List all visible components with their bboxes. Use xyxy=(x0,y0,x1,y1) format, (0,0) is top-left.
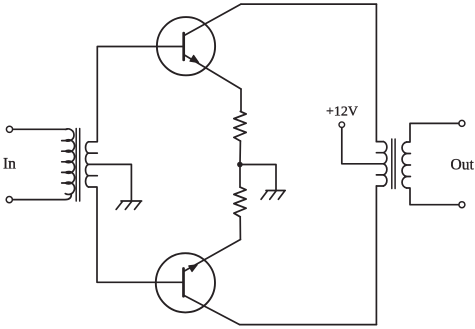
transistor Q1 circle xyxy=(157,17,215,75)
wire right vertical upper xyxy=(375,4,377,142)
transistor Q2 circle xyxy=(156,253,215,312)
transistor Q2 emitter line xyxy=(184,240,240,272)
transistor Q1 collector line xyxy=(185,4,241,35)
transformer T2 secondary winding xyxy=(402,142,407,188)
wire +12V to T2 center tap xyxy=(342,128,384,164)
svg-text:Out: Out xyxy=(451,156,475,173)
wire T2 secondary bottom to Out xyxy=(407,188,459,205)
wire center tap T1 to ground xyxy=(88,164,131,201)
transformer T1 core xyxy=(76,129,80,202)
wire R2 to Q2 emitter bend xyxy=(239,217,241,240)
wire node to ground G2 xyxy=(240,165,276,191)
svg-text:+12V: +12V xyxy=(326,105,358,120)
ground G1 xyxy=(116,201,141,209)
transistor Q2 collector line xyxy=(184,296,239,325)
wire R1 to node xyxy=(239,141,241,165)
wire secondary top to Q1 base xyxy=(88,47,183,142)
wire Q1 emitter to R1 xyxy=(240,89,242,111)
wire node to R2 xyxy=(239,165,241,188)
transistor Q1 emitter arrow xyxy=(190,55,199,62)
terminal Out bottom xyxy=(459,202,465,208)
node junction dot xyxy=(237,162,243,168)
terminal Out top xyxy=(459,120,465,126)
transformer T2 core xyxy=(392,139,395,189)
wire T2 secondary top to Out xyxy=(407,123,459,142)
svg-text:In: In xyxy=(3,156,16,173)
wire bottom rail xyxy=(240,324,377,326)
transformer T1 primary winding xyxy=(65,129,74,195)
resistor R1 xyxy=(234,111,246,141)
transistor Q1 base bar xyxy=(182,33,185,60)
terminal +12V xyxy=(339,122,345,128)
wire top rail xyxy=(241,3,377,5)
transistor Q1 emitter line xyxy=(185,55,241,89)
transformer T1 secondary winding xyxy=(86,142,89,187)
wire In top lead xyxy=(13,128,67,130)
transistor Q2 base bar xyxy=(182,269,185,297)
wire secondary bottom to Q2 base xyxy=(88,187,183,282)
terminal In bottom xyxy=(6,197,12,203)
ground G2 xyxy=(261,191,285,200)
wire In bottom lead xyxy=(13,195,72,200)
transistor Q2 emitter arrow xyxy=(189,265,197,272)
transformer T2 primary winding xyxy=(383,142,386,186)
resistor R2 xyxy=(234,187,246,217)
wire right vertical lower xyxy=(375,186,377,325)
terminal In top xyxy=(6,126,12,132)
